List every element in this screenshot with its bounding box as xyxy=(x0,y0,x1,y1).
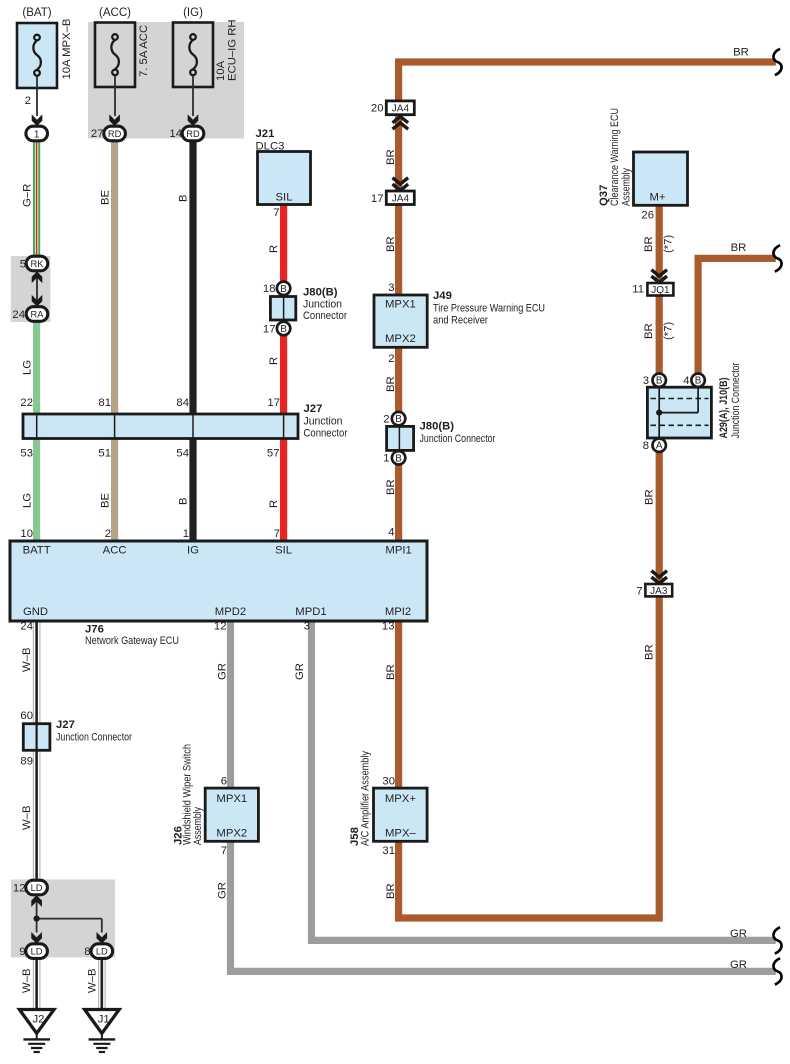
svg-text:Assembly: Assembly xyxy=(192,807,204,845)
svg-text:RK: RK xyxy=(31,259,45,269)
chevron arrows up below JA4 xyxy=(393,116,409,129)
connector JA4 lower xyxy=(386,191,414,205)
wire between RK and RA xyxy=(36,271,38,307)
svg-text:SIL: SIL xyxy=(275,545,292,557)
svg-text:J27: J27 xyxy=(56,719,75,731)
ECU J76 Network Gateway ECU xyxy=(10,541,427,647)
svg-text:BR: BR xyxy=(385,479,397,495)
svg-text:B: B xyxy=(280,284,287,295)
circle B 1 xyxy=(392,451,405,464)
fuse (IG) 10A ECU-IG RH xyxy=(173,7,239,87)
svg-text:3: 3 xyxy=(304,621,310,633)
svg-text:R: R xyxy=(268,357,280,365)
svg-text:7: 7 xyxy=(274,528,280,540)
svg-text:RA: RA xyxy=(31,309,45,319)
svg-text:GR: GR xyxy=(217,663,229,680)
svg-text:MPX1: MPX1 xyxy=(385,299,416,311)
svg-text:18: 18 xyxy=(263,283,276,295)
break squiggle GR upper xyxy=(773,927,781,953)
circle B 4 xyxy=(691,374,704,387)
svg-text:BR: BR xyxy=(385,664,397,680)
circle B 2 xyxy=(392,412,405,425)
svg-text:BR: BR xyxy=(385,883,397,899)
svg-text:W–B: W–B xyxy=(86,969,98,993)
svg-text:1: 1 xyxy=(183,528,189,540)
svg-text:7: 7 xyxy=(221,845,227,857)
svg-text:10A: 10A xyxy=(215,60,227,81)
circle A 8 xyxy=(653,439,666,452)
svg-text:24: 24 xyxy=(12,309,25,321)
svg-text:(BAT): (BAT) xyxy=(22,7,51,19)
ground J2 xyxy=(19,1010,54,1053)
svg-text:GR: GR xyxy=(217,882,229,899)
svg-text:BR: BR xyxy=(643,323,655,339)
junction connector A29(A) J10(B) xyxy=(647,362,742,438)
wire GR ECU MPD1 down and across to right edge xyxy=(312,621,776,940)
svg-text:27: 27 xyxy=(91,128,104,140)
svg-text:Junction Connector: Junction Connector xyxy=(420,433,496,445)
connector RA (oval) xyxy=(26,307,48,322)
svg-text:RD: RD xyxy=(186,129,200,139)
svg-text:57: 57 xyxy=(267,448,280,460)
break squiggle right BR xyxy=(773,245,781,271)
svg-text:M+: M+ xyxy=(649,192,665,204)
fuse (ACC) 7.5A xyxy=(95,7,150,87)
svg-text:Clearance Warning ECU: Clearance Warning ECU xyxy=(609,108,621,206)
wire fuse IG to RD xyxy=(192,76,194,117)
svg-text:J27: J27 xyxy=(304,403,323,415)
svg-text:BR: BR xyxy=(733,47,749,59)
wire fuse BAT to connector 1 xyxy=(36,77,38,117)
svg-text:B: B xyxy=(395,453,402,464)
svg-text:MPX2: MPX2 xyxy=(216,828,247,840)
circle B 17 xyxy=(277,322,290,335)
wire BR main: ECU MPI1 up and across top to right edge xyxy=(399,62,776,541)
shaded region RK/RA connectors xyxy=(11,256,51,322)
svg-text:J76: J76 xyxy=(85,624,104,636)
svg-text:R: R xyxy=(268,245,280,253)
svg-text:MPI1: MPI1 xyxy=(385,545,411,557)
svg-text:IG: IG xyxy=(187,545,199,557)
svg-text:22: 22 xyxy=(20,397,33,409)
svg-text:(*7): (*7) xyxy=(663,322,675,340)
svg-text:MPX2: MPX2 xyxy=(385,333,416,345)
svg-text:17: 17 xyxy=(371,193,384,205)
svg-text:7. 5A ACC: 7. 5A ACC xyxy=(138,25,150,77)
svg-text:LG: LG xyxy=(22,360,34,375)
svg-text:Connector: Connector xyxy=(304,428,348,440)
svg-text:Connector: Connector xyxy=(303,310,347,322)
arrow into RD 27 xyxy=(109,114,120,126)
chevron arrows down above JQ1 xyxy=(651,270,667,283)
wire BE from RD 27 to ECU ACC xyxy=(111,141,118,541)
svg-text:MPX–: MPX– xyxy=(385,828,416,840)
svg-text:BR: BR xyxy=(385,149,397,165)
svg-text:2: 2 xyxy=(105,528,111,540)
svg-text:LD: LD xyxy=(31,947,43,957)
svg-text:81: 81 xyxy=(98,397,111,409)
svg-text:B: B xyxy=(656,376,663,387)
svg-text:MPX1: MPX1 xyxy=(216,793,247,805)
svg-text:2: 2 xyxy=(388,353,394,365)
arrow up into LD 12 xyxy=(31,895,42,907)
svg-text:B: B xyxy=(178,194,190,202)
connector RK (oval) xyxy=(26,256,48,271)
ground J1 xyxy=(85,1010,120,1053)
svg-text:13: 13 xyxy=(382,621,395,633)
svg-text:W–B: W–B xyxy=(21,648,33,672)
svg-text:Junction: Junction xyxy=(303,299,342,311)
svg-text:(ACC): (ACC) xyxy=(99,7,131,19)
connector LD 12 (oval) xyxy=(26,880,48,895)
junction connector J80(B) lower xyxy=(387,421,496,451)
svg-text:J21: J21 xyxy=(256,128,275,140)
svg-text:53: 53 xyxy=(20,448,33,460)
svg-text:3: 3 xyxy=(643,375,649,387)
svg-text:10: 10 xyxy=(20,528,33,540)
wire LD tree xyxy=(37,895,102,933)
svg-text:RD: RD xyxy=(108,129,122,139)
ECU Q37 Clearance Warning xyxy=(598,108,688,206)
svg-text:A29(A), J10(B): A29(A), J10(B) xyxy=(718,377,730,438)
svg-text:2: 2 xyxy=(383,414,389,426)
wire BR branch: right edge to A29 pin 4 xyxy=(698,258,776,380)
svg-text:Tire Pressure Warning ECU: Tire Pressure Warning ECU xyxy=(433,303,545,315)
svg-text:BR: BR xyxy=(644,644,656,660)
wire W-B LD 8 to ground J1 xyxy=(99,958,106,1010)
svg-text:MPX+: MPX+ xyxy=(385,793,416,805)
ECU J26 Windshield Wiper Switch xyxy=(173,744,259,845)
wire LG from RA to ECU BATT xyxy=(33,322,40,542)
svg-text:31: 31 xyxy=(382,845,395,857)
svg-text:BR: BR xyxy=(731,242,747,254)
svg-text:G–R: G–R xyxy=(22,184,34,207)
chevron arrows down above JA3 xyxy=(651,571,667,584)
svg-text:Junction Connector: Junction Connector xyxy=(730,362,742,438)
svg-text:LG: LG xyxy=(22,493,34,508)
svg-text:60: 60 xyxy=(20,710,33,722)
connector J21 DLC3 xyxy=(256,128,311,205)
arrow up into RK xyxy=(32,272,43,284)
arrow into connector 1 xyxy=(32,114,43,126)
connector JA3 xyxy=(645,584,672,597)
svg-text:1: 1 xyxy=(34,129,40,140)
arrow down into LD 9 xyxy=(31,932,42,944)
break squiggle top BR xyxy=(773,49,781,75)
svg-text:(IG): (IG) xyxy=(183,7,203,19)
svg-text:B: B xyxy=(280,324,287,335)
svg-text:84: 84 xyxy=(176,397,189,409)
wire R from DLC3 SIL to ECU SIL xyxy=(280,205,287,542)
svg-text:B: B xyxy=(695,376,702,387)
arrow down into LD 8 xyxy=(97,932,108,944)
chevron arrows down above JA4 lower xyxy=(393,178,409,191)
svg-text:JA4: JA4 xyxy=(392,194,410,205)
svg-text:ECU–IG RH: ECU–IG RH xyxy=(227,19,239,81)
svg-text:J2: J2 xyxy=(33,1014,45,1026)
wire GR ECU MPD2 to J26 MPX1 xyxy=(227,621,234,788)
svg-text:J1: J1 xyxy=(98,1014,110,1026)
svg-text:89: 89 xyxy=(20,756,33,768)
svg-text:4: 4 xyxy=(388,527,394,539)
wire W-B ECU GND down to LD 12 xyxy=(33,621,40,881)
ECU J49 Tire Pressure Warning xyxy=(374,290,545,347)
svg-text:BE: BE xyxy=(100,492,112,508)
connector RD 14 (oval) xyxy=(182,126,204,141)
junction connector J80(B) upper xyxy=(270,287,347,323)
svg-text:Assembly: Assembly xyxy=(621,168,633,206)
wire GR from J26 MPX2 down and across to right edge xyxy=(231,841,776,971)
svg-text:BE: BE xyxy=(100,189,112,205)
svg-text:BR: BR xyxy=(385,236,397,252)
svg-text:20: 20 xyxy=(371,103,384,115)
svg-text:2: 2 xyxy=(25,95,31,107)
svg-text:W–B: W–B xyxy=(21,969,33,993)
svg-text:11: 11 xyxy=(632,284,644,296)
shaded relay block region (ACC/IG fuses) xyxy=(88,22,244,139)
svg-text:LD: LD xyxy=(96,947,108,957)
svg-text:SIL: SIL xyxy=(276,192,293,204)
svg-text:JA3: JA3 xyxy=(650,586,668,597)
svg-text:A: A xyxy=(656,441,663,452)
svg-text:54: 54 xyxy=(176,448,189,460)
connector RD 27 (oval) xyxy=(104,126,126,141)
shaded region LD connectors xyxy=(11,879,115,957)
svg-text:GR: GR xyxy=(294,663,306,680)
svg-text:3: 3 xyxy=(388,282,394,294)
connector LD 9 (oval) xyxy=(26,944,48,959)
svg-text:(*7): (*7) xyxy=(663,235,675,253)
svg-text:B: B xyxy=(395,414,402,425)
wire fuse ACC to RD xyxy=(114,76,116,117)
fuse (BAT) 10A MPX-B xyxy=(17,7,73,88)
svg-text:BR: BR xyxy=(644,489,656,505)
connector JA4 upper xyxy=(386,101,414,115)
svg-text:MPD1: MPD1 xyxy=(295,606,326,618)
svg-text:J49: J49 xyxy=(433,290,452,302)
connector 1 (oval) xyxy=(26,126,48,141)
svg-text:14: 14 xyxy=(169,128,182,140)
svg-text:W–B: W–B xyxy=(21,806,33,830)
svg-text:10A MPX–B: 10A MPX–B xyxy=(61,19,73,80)
svg-text:24: 24 xyxy=(20,621,33,633)
wire BR from A29 pin 8 down, across bottom to J58 MPX- xyxy=(399,445,660,918)
wire W-B LD 9 to ground J2 xyxy=(33,958,40,1010)
svg-text:A/C Amplifier Assembly: A/C Amplifier Assembly xyxy=(360,751,372,846)
svg-text:7: 7 xyxy=(636,586,642,598)
wire BR ECU MPI2 to J58 MPX+ xyxy=(395,621,402,788)
svg-text:JQ1: JQ1 xyxy=(651,285,670,296)
circle B 18 xyxy=(277,282,290,295)
svg-text:17: 17 xyxy=(263,323,276,335)
svg-text:MPD2: MPD2 xyxy=(215,606,246,618)
svg-text:J80(B): J80(B) xyxy=(303,287,338,299)
svg-text:B: B xyxy=(178,497,190,505)
svg-text:Junction: Junction xyxy=(304,416,343,428)
svg-text:30: 30 xyxy=(382,776,395,788)
junction connector J27 small xyxy=(23,719,132,750)
junction connector J27 (long) xyxy=(23,403,348,440)
svg-text:6: 6 xyxy=(221,776,227,788)
svg-text:GR: GR xyxy=(730,928,747,940)
svg-text:LD: LD xyxy=(31,883,43,893)
svg-text:BATT: BATT xyxy=(23,545,51,557)
svg-text:J80(B): J80(B) xyxy=(420,421,455,433)
svg-text:26: 26 xyxy=(641,210,654,222)
svg-text:BR: BR xyxy=(643,236,655,252)
svg-text:51: 51 xyxy=(98,448,111,460)
svg-text:GND: GND xyxy=(23,606,48,618)
connector JQ1 xyxy=(647,283,673,296)
svg-text:BR: BR xyxy=(385,376,397,392)
break squiggle GR lower xyxy=(773,958,781,984)
svg-text:1: 1 xyxy=(383,453,389,465)
arrow into RD 14 xyxy=(188,114,199,126)
arrow down into RA xyxy=(32,295,43,307)
svg-text:JA4: JA4 xyxy=(392,104,410,115)
svg-text:R: R xyxy=(268,500,280,508)
circle B 3 xyxy=(653,374,666,387)
svg-text:GR: GR xyxy=(730,959,747,971)
svg-text:8: 8 xyxy=(643,440,649,452)
svg-text:ACC: ACC xyxy=(103,545,127,557)
svg-text:17: 17 xyxy=(267,397,280,409)
connector LD 8 (oval) xyxy=(91,944,113,959)
svg-text:7: 7 xyxy=(273,207,279,219)
svg-text:4: 4 xyxy=(683,375,689,387)
svg-text:12: 12 xyxy=(214,621,227,633)
svg-text:Junction Connector: Junction Connector xyxy=(56,732,132,744)
wire B from RD 14 to ECU IG xyxy=(189,141,196,541)
svg-text:MPI2: MPI2 xyxy=(385,606,411,618)
svg-text:and Receiver: and Receiver xyxy=(433,315,488,327)
svg-text:Network Gateway ECU: Network Gateway ECU xyxy=(85,635,179,647)
junction dot LD xyxy=(34,916,40,922)
wire G-R from connector 1 to RK (green-red stripe) xyxy=(33,141,40,257)
ECU J58 A/C Amplifier xyxy=(349,751,427,846)
svg-text:12: 12 xyxy=(13,883,26,895)
wire BR from Q37 M+ down to circle B 3 xyxy=(656,205,663,380)
